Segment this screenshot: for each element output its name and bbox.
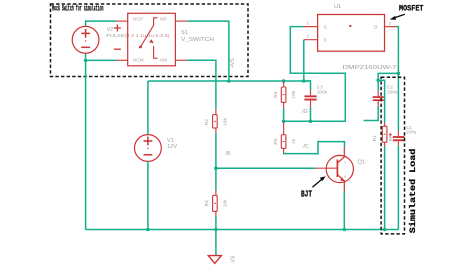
svg-text:10k: 10k <box>223 199 229 207</box>
capacitor C1 <box>389 125 417 146</box>
svg-text:Mock Switch for simulation: Mock Switch for simulation <box>52 3 104 13</box>
wire Q1 emitter to bus <box>343 192 345 230</box>
svg-text:-VS: -VS <box>231 255 237 264</box>
node junction R1 bus <box>383 228 387 232</box>
wire bottom bus <box>86 229 399 231</box>
node junction C3 G <box>309 120 313 124</box>
svg-text:100n: 100n <box>387 90 398 95</box>
svg-text:NCP: NCP <box>133 16 144 21</box>
node junction R3 rail <box>282 79 286 83</box>
simulated load dashed box <box>381 77 404 234</box>
wire NM down to R2 <box>187 60 216 109</box>
BJT callout arrow <box>312 176 325 187</box>
node junction C2 R1 stub <box>376 79 380 83</box>
switch S1 box <box>128 13 176 66</box>
transistor Q1 <box>316 147 365 192</box>
wire bus to ground <box>215 230 217 256</box>
svg-text:100u: 100u <box>406 129 417 134</box>
wire node G to MOSFET gate <box>284 27 346 122</box>
svg-text:V_SWITCH: V_SWITCH <box>181 37 214 43</box>
svg-text:S1: S1 <box>181 30 188 36</box>
svg-text:NP: NP <box>160 16 167 21</box>
svg-text:/G: /G <box>302 109 308 115</box>
node junction S rail <box>302 79 306 83</box>
svg-text:R5: R5 <box>273 138 279 144</box>
wire C1 to bus <box>397 146 399 230</box>
capacitor C2 <box>373 84 398 106</box>
resistor R4 <box>204 168 228 216</box>
svg-text:PULSE(0 2 1 1u 1u 0.3 6): PULSE(0 2 1 1u 1u 0.3 6) <box>106 33 170 39</box>
svg-text:e: e <box>344 175 346 179</box>
svg-text:100n: 100n <box>317 89 328 94</box>
wire R3 to node G <box>283 108 285 121</box>
wire V2 bottom to junction <box>86 53 116 60</box>
node junction G-R3R5 <box>282 120 286 124</box>
resistor R5 <box>273 121 297 153</box>
svg-text:Q1: Q1 <box>358 160 365 166</box>
wire drain branch to C2 <box>378 73 398 90</box>
S1 switch lever <box>141 18 158 58</box>
wire MOSFET drain down <box>397 27 399 131</box>
svg-text:1: 1 <box>307 22 309 26</box>
wire rail down to V1 <box>147 81 149 135</box>
voltage source V2 <box>72 26 99 53</box>
voltage source V1 <box>135 135 162 162</box>
svg-text:U1: U1 <box>334 4 341 10</box>
resistor R2 <box>204 109 228 133</box>
node junction R4 bus <box>214 228 218 232</box>
node junction drain branch <box>397 72 401 76</box>
svg-text:2: 2 <box>307 35 309 39</box>
svg-text:12V: 12V <box>167 144 177 150</box>
wire R2 to node B <box>215 133 217 168</box>
V2 polarity marks <box>114 25 121 50</box>
svg-text:c: c <box>344 160 346 164</box>
svg-text:10k: 10k <box>223 118 229 126</box>
svg-text:/C: /C <box>303 144 308 150</box>
svg-text:Simulated Load: Simulated Load <box>408 149 418 234</box>
mock switch dashed box <box>51 4 249 77</box>
wire R4 to bus <box>215 217 217 230</box>
MOSFET callout arrow <box>390 14 405 20</box>
wire C2 bottom dangling <box>364 106 379 121</box>
resistor R3 <box>273 81 297 108</box>
wire rail corner to C3 <box>304 81 311 90</box>
node junction B <box>214 166 218 170</box>
wire V2 down to bottom bus <box>85 60 87 229</box>
ground symbol <box>208 256 221 264</box>
S1 pin stubs <box>116 21 187 60</box>
node junction NP rail <box>227 79 231 83</box>
node junction V1 bus <box>146 228 150 232</box>
wire node B to Q1 base <box>216 167 316 169</box>
svg-text:V2: V2 <box>107 27 113 33</box>
svg-text:R1: R1 <box>372 135 378 141</box>
wire R1 to bus <box>384 146 386 229</box>
resistor R1 <box>372 123 394 147</box>
svg-text:3: 3 <box>389 22 391 26</box>
svg-text:1k: 1k <box>291 138 297 144</box>
svg-text:G: G <box>324 24 328 29</box>
svg-text:NM: NM <box>160 57 167 62</box>
node junction V2 bottom <box>84 59 88 63</box>
wire MOSFET source down to rail <box>303 40 305 81</box>
capacitor C3 <box>304 84 327 107</box>
wire NP to +VS rail <box>187 21 229 81</box>
wire stub to R1 <box>378 80 384 122</box>
svg-text:BJT: BJT <box>301 190 312 200</box>
+12 rail wire <box>148 80 311 82</box>
svg-text:R4: R4 <box>204 200 210 206</box>
wire V2 top to NCP <box>86 21 116 27</box>
svg-text:R2: R2 <box>204 119 210 125</box>
svg-text:+VS: +VS <box>230 58 236 68</box>
wire V1 bottom to bus <box>147 161 149 229</box>
svg-text:S: S <box>324 38 327 43</box>
node junction emitter bus <box>343 228 347 232</box>
mosfet U1 <box>304 4 397 71</box>
svg-text:NCM: NCM <box>133 57 144 62</box>
svg-text:R3: R3 <box>273 91 279 97</box>
svg-text:/B: /B <box>226 151 231 157</box>
wire R5 to Q1 collector (net C) <box>284 142 345 154</box>
svg-text:10k: 10k <box>291 90 297 98</box>
svg-text:DMP2160UW-7: DMP2160UW-7 <box>343 65 397 71</box>
svg-text:MOSFET: MOSFET <box>399 4 424 14</box>
wire C3 to node G <box>310 107 312 121</box>
